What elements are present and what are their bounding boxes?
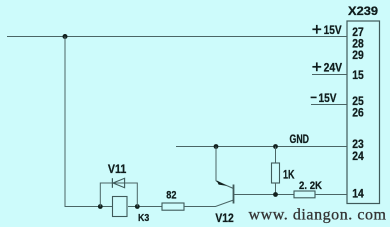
- wire V12 base to 2.2K: [234, 194, 294, 196]
- wire 1K bottom stub: [275, 183, 277, 195]
- wire -15V stub: [311, 104, 347, 106]
- svg-text:www. diangon. com: www. diangon. com: [249, 207, 387, 224]
- diode V11: [112, 178, 124, 188]
- svg-text:V12: V12: [215, 213, 233, 225]
- svg-text:14: 14: [352, 189, 364, 201]
- svg-text:25: 25: [352, 96, 364, 108]
- svg-text:24V: 24V: [324, 62, 343, 74]
- svg-text:15: 15: [352, 70, 364, 82]
- svg-text:28: 28: [352, 39, 364, 51]
- node 1K bottom junction: [273, 192, 278, 197]
- svg-text:27: 27: [352, 27, 364, 39]
- resistor 82: [162, 203, 184, 210]
- wire left vertical drop: [65, 37, 113, 207]
- svg-text:23: 23: [352, 139, 364, 151]
- node GND junction at V12 collector: [214, 144, 219, 149]
- svg-text:K3: K3: [138, 212, 149, 224]
- label +24V: [312, 62, 342, 74]
- wire +24V stub: [312, 74, 347, 76]
- wire K3 to 82: [128, 206, 162, 208]
- relay coil K3: [113, 197, 128, 217]
- wire 82 to V12 emitter: [184, 200, 234, 207]
- node 1K top junction on GND rail: [273, 144, 278, 149]
- label +15V: [312, 25, 341, 37]
- svg-text:24: 24: [352, 151, 364, 163]
- wire V12 collector drop: [215, 147, 217, 182]
- node K3 left junction: [98, 204, 103, 209]
- wire 1K top stub: [275, 147, 277, 164]
- resistor 2.2K: [294, 191, 315, 198]
- svg-text:X239: X239: [348, 4, 378, 18]
- transistor V12: [216, 180, 234, 203]
- svg-text:2. 2K: 2. 2K: [299, 180, 322, 192]
- node junction on +15V rail: [63, 34, 68, 39]
- svg-text:29: 29: [352, 50, 364, 62]
- svg-text:V11: V11: [108, 164, 127, 176]
- label -15V: [311, 93, 337, 105]
- svg-text:15V: 15V: [319, 93, 337, 105]
- wire 2.2K to pin 14: [315, 194, 347, 196]
- connector X239 outline: [347, 21, 380, 204]
- svg-text:82: 82: [166, 190, 176, 202]
- wire +15V rail: [7, 36, 347, 38]
- svg-text:26: 26: [352, 108, 364, 120]
- diode V11 branch wires: [100, 183, 137, 207]
- svg-text:GND: GND: [290, 134, 310, 146]
- node K3 right junction: [135, 204, 140, 209]
- svg-text:15V: 15V: [324, 25, 342, 37]
- resistor 1K: [272, 163, 280, 183]
- wire GND rail: [176, 146, 347, 148]
- svg-text:1K: 1K: [283, 170, 295, 182]
